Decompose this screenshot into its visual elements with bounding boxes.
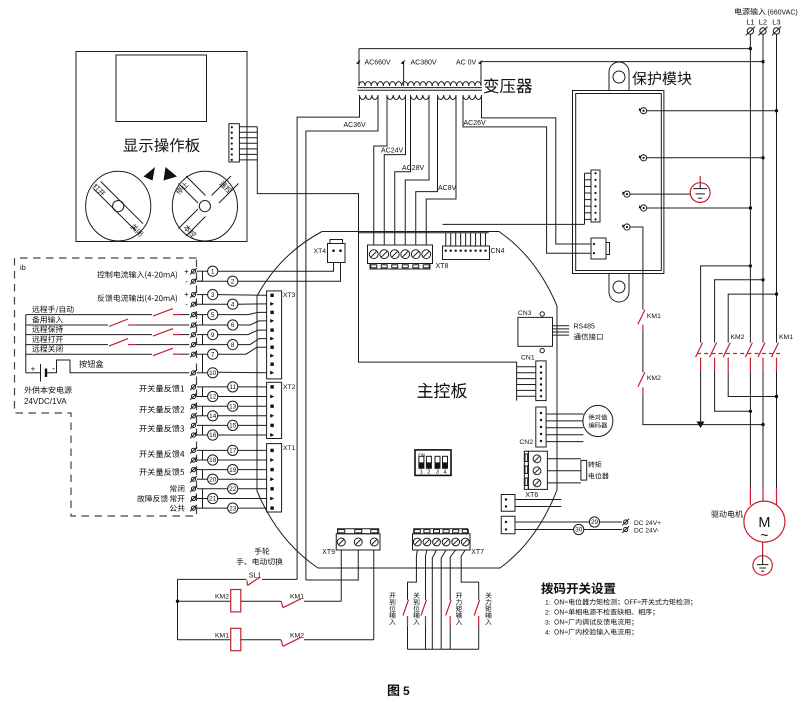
svg-text:17: 17 xyxy=(229,448,237,455)
primary tap AC 0V xyxy=(480,62,482,86)
svg-text:CN1: CN1 xyxy=(521,355,535,362)
secondary AC8V wires to XT8 xyxy=(416,95,438,245)
svg-text:-: - xyxy=(52,363,55,373)
wire AC660V tap to L1 rail xyxy=(359,48,750,50)
knob SW2 stop/remote/local selector xyxy=(172,171,237,241)
svg-text:KM1: KM1 xyxy=(647,313,661,320)
svg-text:6: 6 xyxy=(231,322,235,329)
svg-text:1:: 1: xyxy=(545,600,551,607)
svg-text:+: + xyxy=(184,267,189,276)
left control bus xyxy=(177,579,179,639)
svg-text:CN3: CN3 xyxy=(518,310,532,317)
svg-text:3: 3 xyxy=(211,292,215,299)
wires rows 3-10 into XT3 xyxy=(218,294,267,297)
terminal block XT9 xyxy=(338,529,379,534)
svg-text:AC660V: AC660V xyxy=(365,59,391,66)
wire XT9-1 down to KM2 coil row xyxy=(340,550,342,601)
KM2 bank outputs crossover wiring xyxy=(700,371,702,425)
svg-text:12: 12 xyxy=(209,394,217,401)
module terminal T5 to contactor chain xyxy=(622,224,630,230)
aux connector P1 xyxy=(501,495,515,512)
motor ground symbol xyxy=(753,542,772,575)
torque potentiometer 转矩电位器 xyxy=(581,460,587,480)
label 保护模块 xyxy=(632,71,691,85)
svg-text:+: + xyxy=(184,290,189,299)
svg-text:8: 8 xyxy=(231,342,235,349)
wire XT7-4 xyxy=(441,550,446,649)
wire XT7-3 xyxy=(432,550,436,649)
svg-text:KM2: KM2 xyxy=(647,375,661,382)
mechanical link dashes xyxy=(697,353,780,355)
svg-text:CN4: CN4 xyxy=(491,248,505,255)
label 手、电动切换 xyxy=(236,558,282,565)
svg-text:1: 1 xyxy=(420,470,423,476)
wire AC0V tap to L2 rail xyxy=(481,61,763,63)
svg-text:L1: L1 xyxy=(746,18,754,27)
svg-text:~: ~ xyxy=(760,527,768,543)
svg-text:XT4: XT4 xyxy=(314,248,327,255)
motor feed red segments xyxy=(749,488,751,505)
display operation panel box 显示操作板 xyxy=(76,52,247,242)
label 反馈电流输出(4-20mA) xyxy=(97,294,177,302)
svg-text:AC380V: AC380V xyxy=(411,59,437,66)
labels 故障反馈 常闭 常开 公共 xyxy=(170,485,184,492)
wires XT4 to terminals 1 2 xyxy=(218,263,334,272)
svg-text:7: 7 xyxy=(211,351,215,358)
svg-text:-: - xyxy=(185,300,188,309)
panel arrow marks xyxy=(144,167,156,181)
svg-text:18: 18 xyxy=(209,457,217,464)
protection module outline 保护模块 xyxy=(573,91,664,274)
svg-text:KM2: KM2 xyxy=(290,632,304,639)
absolute encoder 绝对值编码器 xyxy=(583,405,613,436)
wires rows 17-23 into XT1 xyxy=(238,449,267,451)
KM2 bank feed from L1 xyxy=(701,266,751,343)
secondary AC26V wires to protection module xyxy=(482,95,592,244)
svg-text:4:: 4: xyxy=(545,630,551,637)
svg-text:3: 3 xyxy=(436,470,439,476)
svg-text:2: 2 xyxy=(427,470,430,476)
secondary AC36V wires down left side xyxy=(297,95,359,579)
svg-text:DC 24V-: DC 24V- xyxy=(634,527,659,534)
svg-text:RS485: RS485 xyxy=(574,324,596,331)
svg-text:5: 5 xyxy=(403,684,410,698)
wire DC 24V+ with terminal 29 xyxy=(515,521,589,523)
L1 phase rail xyxy=(749,34,751,342)
battery 外供本安电源 24VDC/1VA xyxy=(26,372,41,374)
svg-text:30: 30 xyxy=(575,527,583,534)
svg-text:XT2: XT2 xyxy=(283,384,296,391)
svg-text:19: 19 xyxy=(229,467,237,474)
aux connector P2 with DC24V outputs xyxy=(501,516,515,534)
svg-text:L3: L3 xyxy=(772,18,780,27)
DIP switch SW xyxy=(415,450,451,476)
svg-text:ib: ib xyxy=(20,263,26,272)
svg-text:XT9: XT9 xyxy=(322,549,335,556)
panel connector J1 xyxy=(229,124,240,162)
svg-text:3:: 3: xyxy=(545,620,551,627)
svg-text:KM1: KM1 xyxy=(779,334,793,341)
module terminal T1 to L3 xyxy=(639,108,647,114)
intrinsic safety dashed enclosure ib xyxy=(15,258,197,516)
svg-text:-: - xyxy=(185,277,188,286)
module terminal T2 to L2 xyxy=(639,155,647,161)
svg-text:1: 1 xyxy=(211,268,215,275)
svg-text:KM2: KM2 xyxy=(731,334,745,341)
switch SL1 xyxy=(178,578,247,580)
wire module CN to main board bus xyxy=(443,223,585,225)
L2 phase rail xyxy=(762,34,764,342)
transformer secondary windings xyxy=(360,95,378,99)
label 手轮 xyxy=(255,547,270,554)
svg-text:2:: 2: xyxy=(545,610,551,617)
L3 phase rail xyxy=(776,34,778,342)
transformer core xyxy=(358,87,483,89)
terminal block XT7 xyxy=(414,529,468,534)
main control board outline 主控板 xyxy=(257,232,557,569)
svg-text:AC28V: AC28V xyxy=(402,165,425,172)
svg-text:15: 15 xyxy=(229,423,237,430)
figure caption 图5 xyxy=(388,684,399,696)
svg-text:XT7: XT7 xyxy=(471,549,484,556)
labels 开到位输入 etc (vertical) xyxy=(389,593,395,599)
terminal strip XT3 xyxy=(267,291,282,379)
module 2pin connector xyxy=(591,238,606,259)
svg-text:XT6: XT6 xyxy=(525,492,538,499)
position switch input column 1 xyxy=(408,550,418,600)
position switch input column 4 xyxy=(461,550,479,600)
labels 开关量反馈1-5 xyxy=(139,385,184,393)
svg-text:24VDC/1VA: 24VDC/1VA xyxy=(24,397,67,406)
terminal block XT8 xyxy=(368,245,433,264)
KM2 bank feed from L3 xyxy=(728,294,776,343)
pair brackets rows 11-23 xyxy=(202,387,204,397)
position switch input column 2 xyxy=(426,550,427,600)
KM2 bank feed from L2 xyxy=(715,280,763,343)
label 主控板 xyxy=(418,383,467,399)
svg-text:XT1: XT1 xyxy=(283,445,296,452)
terminal block XT6 xyxy=(524,451,528,489)
label 变压器 xyxy=(484,78,532,93)
module bottom mounting ear xyxy=(609,274,629,303)
module terminal T4 to L1 xyxy=(639,205,647,211)
panel connector wires to main board xyxy=(239,126,257,128)
wire XT9-3 down to KM1 coil row xyxy=(373,550,375,640)
svg-text:23: 23 xyxy=(229,505,237,512)
svg-text:13: 13 xyxy=(229,403,237,410)
display screen xyxy=(116,55,207,122)
svg-text:KM1: KM1 xyxy=(290,594,304,601)
power input label 电源输入(660VAC) xyxy=(735,8,766,15)
switch feedback rows 11-23 xyxy=(190,384,197,390)
secondary AC28V wires to XT8 xyxy=(395,95,411,245)
primary tap AC380V xyxy=(403,62,405,86)
svg-text:11: 11 xyxy=(229,384,236,391)
terminal strip XT1 xyxy=(267,444,282,512)
label 控制电流输入(4-20mA) xyxy=(97,271,177,279)
svg-text:XT3: XT3 xyxy=(283,292,296,299)
secondary AC24V wires to XT8 xyxy=(374,95,387,245)
svg-text:21: 21 xyxy=(209,496,217,503)
bottom rail xyxy=(408,648,479,650)
wires rows 11-16 into XT2 xyxy=(238,386,267,388)
wire XT9-2 to AC36V line xyxy=(306,550,358,580)
module terminal T3 to earth xyxy=(622,191,630,197)
svg-text:L2: L2 xyxy=(759,18,767,27)
svg-text:AC8V: AC8V xyxy=(438,185,457,192)
module internal connector CN (8pin) xyxy=(591,170,600,222)
push button box wire 按钮盒 row 10 xyxy=(46,360,189,373)
svg-text:5: 5 xyxy=(211,312,215,319)
svg-text:SL1: SL1 xyxy=(249,573,262,580)
switch input rows 5-9 xyxy=(32,306,73,314)
svg-text:CN2: CN2 xyxy=(519,439,533,446)
svg-text:16: 16 xyxy=(209,432,217,439)
svg-text:14: 14 xyxy=(209,413,217,420)
svg-text:DC 24V+: DC 24V+ xyxy=(634,520,661,527)
motor M 驱动电机 xyxy=(711,510,743,517)
svg-text:AC26V: AC26V xyxy=(464,120,487,127)
svg-text:+: + xyxy=(31,364,36,373)
svg-text:(660VAC): (660VAC) xyxy=(768,10,798,17)
transformer T1 primary winding xyxy=(359,82,481,86)
svg-text:XT8: XT8 xyxy=(436,263,449,270)
knob SW1 open/close selector xyxy=(86,171,151,241)
pair bracket terminals 1-2 xyxy=(202,271,204,281)
position switch input column 3 xyxy=(450,550,456,600)
KM1 three-phase contacts xyxy=(745,343,752,371)
wire bundle display to CN1 xyxy=(257,127,516,401)
left bus for switch rows xyxy=(25,315,27,373)
svg-text:AC 0V: AC 0V xyxy=(456,59,477,66)
svg-text:4: 4 xyxy=(231,301,235,308)
primary tap AC660V xyxy=(358,49,360,86)
svg-text:2: 2 xyxy=(231,278,235,285)
pair brackets rows 5-10 xyxy=(202,315,204,325)
CN4 bus wires xyxy=(359,232,489,234)
earth ground symbol (red) xyxy=(690,176,710,203)
wires XT6 to torque potentiometer xyxy=(547,458,581,460)
module top mounting ear xyxy=(609,62,629,91)
svg-text:9: 9 xyxy=(211,332,215,339)
svg-text:29: 29 xyxy=(591,519,599,526)
svg-text:22: 22 xyxy=(229,486,237,493)
connector CN2 xyxy=(536,407,546,447)
wire DC 24V- with terminal 30 xyxy=(515,529,574,531)
svg-text:KM2: KM2 xyxy=(215,594,229,601)
pair bracket terminals 3-4 xyxy=(202,295,204,305)
svg-text:20: 20 xyxy=(209,476,217,483)
svg-text:KM1: KM1 xyxy=(215,632,229,639)
connector CN4 xyxy=(443,246,490,260)
terminal strip XT2 xyxy=(267,382,282,438)
svg-text:10: 10 xyxy=(209,370,217,377)
label 显示操作板 xyxy=(123,138,199,152)
svg-text:AC24V: AC24V xyxy=(381,148,404,155)
KM2 three-phase contacts xyxy=(696,343,703,371)
heading 拨码开关设置 xyxy=(541,582,615,594)
svg-text:AC36V: AC36V xyxy=(344,122,367,129)
